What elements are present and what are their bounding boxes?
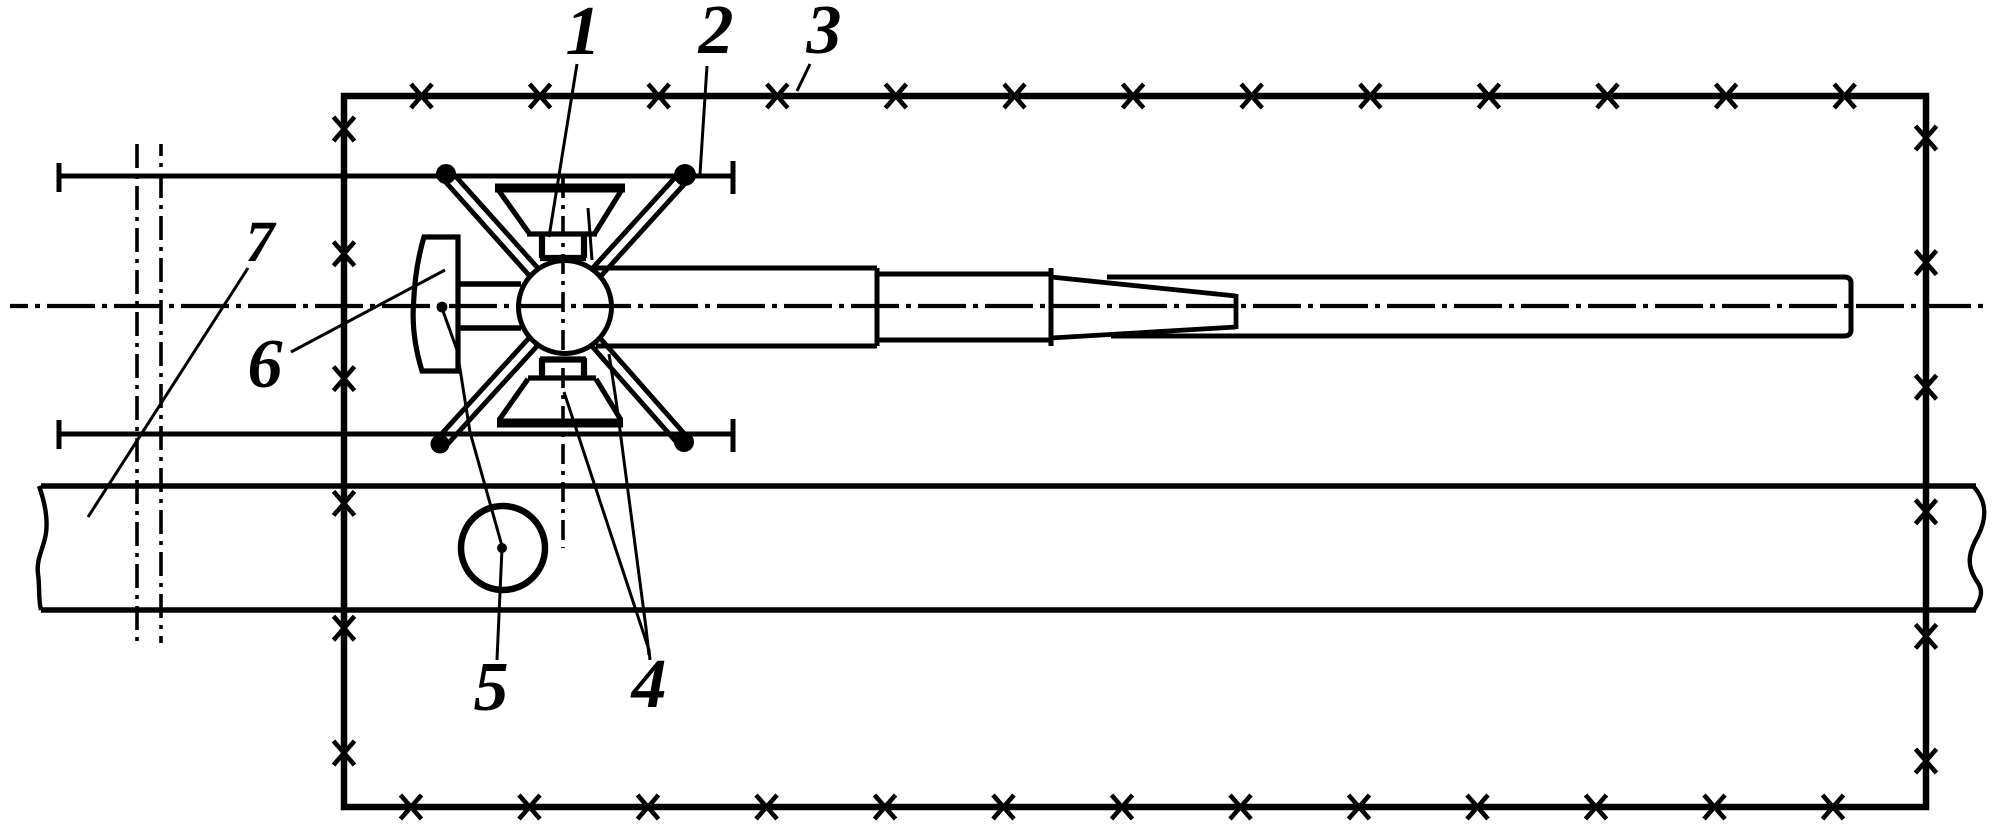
svg-text:4: 4	[630, 646, 667, 723]
upper clamp sides	[499, 191, 621, 234]
lower-right pivot bolt	[674, 432, 694, 452]
upper-right pivot bolt	[674, 164, 696, 186]
lower frame rail	[59, 419, 733, 452]
feed cable line	[443, 311, 502, 546]
boom taper cone	[1051, 277, 1236, 338]
mast break line right	[1970, 486, 1985, 610]
svg-text:6: 6	[248, 326, 283, 403]
upper frame rail 2	[59, 161, 733, 194]
leader line 4a	[564, 392, 650, 660]
drill rod tube	[1107, 277, 1851, 336]
feed sheave 5	[461, 506, 545, 590]
leader line 1	[549, 64, 577, 237]
leader line 5	[497, 548, 502, 660]
leader line 6	[291, 270, 445, 352]
lower clamp bracket	[497, 419, 623, 428]
fence enclosure border 3	[344, 96, 1926, 807]
horizontal axis centerline	[10, 304, 1988, 308]
lower-left pivot bolt	[431, 435, 450, 454]
upper-left diagonal strut	[442, 170, 539, 276]
clamp pointer line	[588, 208, 592, 260]
handwheel disc 6	[413, 237, 458, 371]
upper-right diagonal strut	[592, 171, 690, 277]
svg-text:1: 1	[566, 0, 601, 70]
leader line 3	[797, 64, 810, 91]
lower-left diagonal strut	[436, 337, 538, 448]
upper-left pivot bolt	[436, 164, 456, 184]
upper clamp jaw neck 4	[540, 236, 586, 258]
mast break line left	[38, 486, 47, 610]
feed sheave center dot	[497, 543, 507, 553]
leader line 7	[88, 268, 248, 517]
boom section first	[594, 268, 877, 346]
leader dot 6	[437, 302, 448, 313]
svg-text:5: 5	[474, 649, 509, 726]
leader line 2	[700, 66, 707, 174]
svg-text:7: 7	[246, 209, 277, 274]
fence X marks top side	[411, 84, 1855, 108]
svg-text:3: 3	[806, 0, 842, 69]
boom section second	[877, 268, 1051, 346]
upper clamp bracket	[495, 184, 625, 193]
left vertical centerline a	[135, 144, 139, 643]
fence X marks right side	[1916, 126, 1937, 773]
mast beam 7	[41, 486, 1976, 610]
lower clamp jaw neck	[540, 358, 586, 379]
svg-text:2: 2	[698, 0, 734, 69]
lower clamp sides	[499, 378, 621, 420]
fence X marks bottom side	[401, 795, 1844, 819]
fence X marks left side	[334, 117, 355, 765]
vertical centerline of clamp	[561, 178, 565, 548]
handwheel hub shaft	[459, 284, 521, 328]
left vertical centerline b	[159, 144, 163, 643]
lower-right diagonal strut	[591, 338, 688, 446]
leader line 4b	[609, 354, 649, 655]
central ball joint	[519, 261, 612, 354]
